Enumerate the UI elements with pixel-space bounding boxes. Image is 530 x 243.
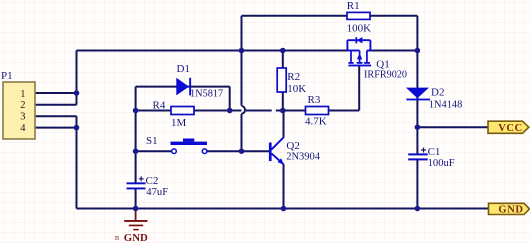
wire hop on vertical x241 over R4 row: [242, 106, 246, 114]
wire D1 loop right vertical: [229, 87, 231, 111]
svg-text:4: 4: [20, 123, 26, 134]
drain jog: [367, 50, 371, 52]
svg-text:R1: R1: [347, 0, 360, 12]
svg-text:1: 1: [20, 89, 25, 100]
junction dot R4 left: [133, 108, 139, 114]
wire left vertical x241 lower: [241, 114, 243, 151]
svg-text:C2: C2: [146, 175, 159, 187]
wire main row y50.5 from P1 to Q1: [77, 50, 348, 52]
wire P1 pin3: [35, 115, 77, 117]
svg-text:IRFR9020: IRFR9020: [364, 70, 407, 81]
resistor R2: [277, 68, 306, 95]
ground symbol: [115, 209, 148, 243]
wire bottom GND rail: [77, 208, 489, 210]
svg-text:R2: R2: [287, 71, 300, 83]
right channel stub: [366, 51, 368, 63]
svg-text:1M: 1M: [171, 117, 187, 129]
svg-text:3: 3: [20, 112, 25, 123]
wire left vertical x135: [135, 87, 137, 183]
wire vertical x76 pins 1-2: [76, 51, 78, 105]
wire Q1 right to x417: [370, 50, 417, 52]
wire R2 bottom lead: [282, 92, 284, 111]
diode D1: [176, 63, 223, 100]
wire P1 pin4: [35, 127, 77, 129]
junction dot C2 rail: [133, 206, 139, 212]
svg-text:S1: S1: [146, 135, 158, 147]
wire P1 pin2: [35, 104, 77, 106]
wire D1 row y86.6: [136, 86, 230, 88]
transistor Q2: [269, 137, 321, 164]
svg-text:GND: GND: [498, 205, 523, 216]
junction dot R2 top: [280, 48, 286, 54]
wire Q2 emitter vertical: [283, 164, 285, 209]
svg-text:100uF: 100uF: [428, 158, 455, 169]
junction dot S1 left: [133, 148, 139, 154]
svg-text:47uF: 47uF: [146, 187, 168, 198]
wire Q1 gate vertical: [358, 65, 360, 111]
svg-text:10K: 10K: [287, 83, 306, 95]
svg-text:D2: D2: [431, 87, 444, 99]
left channel stub: [350, 51, 352, 63]
junction dot Q1 right rail: [415, 48, 421, 54]
svg-text:P1: P1: [1, 70, 13, 82]
middle channel stub with arrow: [359, 51, 361, 63]
resistor R3: [305, 94, 329, 128]
svg-text:1N4148: 1N4148: [429, 100, 462, 111]
svg-text:GND: GND: [124, 232, 148, 243]
wire Q2 collector vertical: [283, 111, 285, 138]
resistor R1: [347, 0, 372, 35]
junction dot pins1-2: [74, 90, 80, 96]
junction dot C1 rail: [415, 206, 421, 212]
svg-text:R4: R4: [153, 100, 166, 112]
junction dot VCC tap: [415, 124, 421, 130]
junction dot Q2 emitter rail: [281, 206, 287, 212]
connector P1: [1, 70, 35, 139]
svg-text:2: 2: [20, 100, 25, 111]
svg-text:4.7K: 4.7K: [305, 116, 327, 128]
wire R2 top lead: [282, 51, 284, 69]
junction dot x241 row50: [239, 48, 245, 54]
right leg: [369, 40, 371, 51]
wire top rail right segment: [370, 15, 417, 17]
power port GND: [489, 203, 530, 215]
left leg: [346, 40, 348, 51]
svg-text:Q1: Q1: [376, 58, 389, 70]
svg-text:1N5817: 1N5817: [190, 89, 223, 100]
svg-text:2N3904: 2N3904: [286, 152, 321, 163]
wire R4/R3 row y110.5 right of hop: [246, 110, 272, 112]
svg-text:n: n: [115, 233, 119, 242]
junction dot pins3-4: [74, 125, 80, 131]
junction dot R2 bottom node: [280, 108, 286, 114]
diode D2: [406, 87, 462, 111]
mosfet Q1: [347, 37, 407, 81]
wire R4/R3 row y110.5 left of hop: [136, 110, 242, 112]
power port VCC: [488, 121, 529, 134]
wire S1 row right to Q2 base: [207, 150, 269, 152]
junction dot S1 right x241: [239, 148, 245, 154]
wire S1 row left: [136, 150, 172, 152]
wire vertical x76 pins 3-4 down to rail: [76, 116, 78, 208]
svg-text:Q2: Q2: [286, 140, 299, 152]
svg-text:D1: D1: [177, 63, 190, 75]
switch S1: [146, 135, 207, 154]
wire P1 pin1: [35, 92, 77, 94]
gate bar: [348, 65, 371, 67]
junction dot D1 loop bottom: [227, 108, 233, 114]
top bar with body diode: [347, 39, 370, 41]
wire left vertical x135 below C2: [135, 189, 137, 209]
capacitor C1: [408, 146, 455, 169]
resistor R4: [153, 100, 195, 130]
svg-text:C1: C1: [428, 146, 441, 158]
wire top rail left segment: [242, 15, 348, 17]
svg-text:VCC: VCC: [498, 123, 523, 134]
wire VCC tap: [417, 126, 488, 128]
wire right vertical x417 below C1: [416, 159, 418, 208]
wire left vertical x241 upper: [241, 16, 243, 106]
svg-text:R3: R3: [308, 94, 321, 106]
source-body bar: [347, 50, 359, 52]
svg-text:100K: 100K: [347, 23, 372, 35]
capacitor C2: [127, 175, 169, 198]
wire right vertical x417: [416, 16, 418, 154]
